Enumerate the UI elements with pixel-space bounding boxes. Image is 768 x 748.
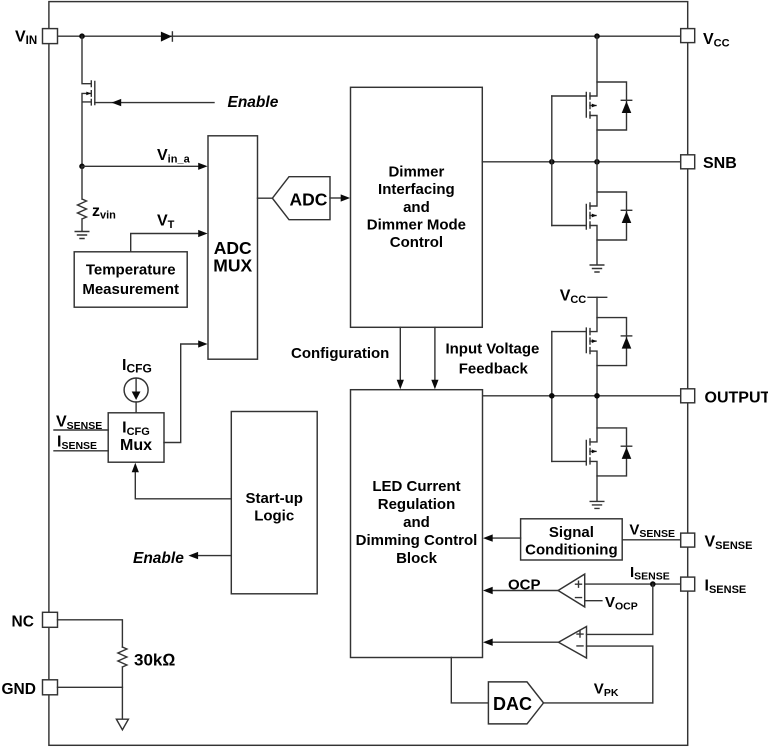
block LED Current Regulation and Dimming Control Block	[351, 390, 483, 658]
wire OCP output to LED block	[491, 590, 558, 592]
block Signal Conditioning	[521, 519, 623, 560]
pin SNB	[681, 155, 695, 169]
svg-text:Feedback: Feedback	[459, 360, 529, 377]
svg-text:Signal: Signal	[549, 524, 594, 541]
wire M4 source to ground	[596, 476, 598, 501]
wire VCC rail down to M1	[596, 36, 598, 82]
wire ISENSE pin to OCP + input	[585, 583, 681, 585]
svg-text:Start-up: Start-up	[245, 490, 303, 507]
gate bus M3/M4	[551, 332, 553, 462]
svg-text:DAC: DAC	[493, 694, 532, 714]
wire Configuration arrow	[399, 327, 401, 380]
pin NC	[43, 612, 58, 627]
wire M1 source to SNB node	[596, 130, 598, 162]
comparator U1 (OCP)	[558, 574, 585, 607]
svg-text:Logic: Logic	[254, 507, 294, 524]
block ADC MUX	[208, 136, 258, 359]
wire Dimmer block to SNB pin	[482, 161, 680, 163]
pin VCC	[681, 29, 695, 43]
wire VPK from DAC	[544, 702, 653, 704]
node junction gate bus / SNB	[549, 159, 555, 165]
ground (below M2)	[590, 265, 604, 272]
svg-text:MUX: MUX	[213, 256, 252, 276]
block Start-up Logic	[231, 412, 317, 594]
wire ADC MUX to ADC	[258, 197, 273, 199]
wire LED block to DAC	[451, 658, 488, 703]
wire enable to Q1 gate	[95, 102, 214, 104]
ground (below zvin)	[75, 232, 89, 239]
wire OUTPUT node down to M4	[596, 396, 598, 428]
node junction at x=82	[79, 33, 85, 39]
wire VCC tick down to M3	[596, 297, 598, 317]
svg-text:Dimming Control: Dimming Control	[356, 532, 478, 549]
wire Vin_a to ADC MUX	[82, 165, 199, 167]
svg-text:Dimmer: Dimmer	[388, 163, 444, 180]
wire ISENSE into mux	[54, 450, 108, 452]
node junction M1 source / SNB	[594, 159, 600, 165]
diode D1 on top rail	[161, 32, 172, 42]
wire VIN to VCC (top rail)	[58, 35, 681, 37]
wire Start-up Logic to mux (select)	[135, 471, 231, 499]
svg-text:Control: Control	[390, 234, 443, 251]
gate bus M1/M2	[551, 96, 553, 226]
wire GND to resistor bottom	[58, 687, 123, 719]
transistor M4 (low-side output FET)	[552, 428, 632, 476]
svg-text:Temperature: Temperature	[86, 261, 176, 278]
wire ISENSE down to U2 + input	[587, 584, 653, 634]
node junction at x=597	[594, 33, 600, 39]
pin ISENSE	[681, 577, 695, 591]
svg-text:VIN: VIN	[15, 29, 37, 48]
transistor M2 (low-side snubber FET)	[552, 192, 632, 240]
DAC pentagon	[488, 682, 543, 724]
wire Signal Conditioning to LED block	[491, 537, 521, 539]
wire NC to resistor	[58, 620, 123, 647]
wire ADC to Dimmer block	[330, 197, 342, 199]
wire U2 output to LED block	[491, 641, 559, 643]
svg-text:and: and	[403, 514, 430, 531]
pin VSENSE	[681, 533, 695, 547]
wire M3 source to OUTPUT node	[596, 366, 598, 396]
wire Enable output	[197, 555, 231, 557]
svg-text:Interfacing: Interfacing	[378, 181, 455, 198]
block ICFG Mux	[108, 413, 164, 462]
comparator U2 (peak)	[559, 627, 587, 659]
wire U2 - input to VPK	[587, 646, 653, 703]
block Temperature Measurement	[74, 252, 187, 307]
node junction ISENSE	[650, 581, 656, 587]
svg-text:Enable: Enable	[133, 550, 184, 567]
svg-text:VSENSE: VSENSE	[705, 534, 753, 553]
ground (below M4)	[590, 501, 604, 508]
svg-text:Configuration: Configuration	[291, 345, 389, 362]
wire M2 source to ground	[596, 240, 598, 265]
svg-text:VCC: VCC	[703, 31, 730, 50]
pin VIN	[43, 29, 58, 44]
svg-text:Block: Block	[396, 550, 438, 567]
wire ICFG to mux	[135, 402, 137, 413]
node junction M3 source / OUTPUT	[594, 393, 600, 399]
current source ICFG	[124, 378, 148, 402]
pin GND	[43, 680, 58, 695]
supply tick VCC	[588, 296, 607, 298]
svg-text:Conditioning: Conditioning	[525, 542, 617, 559]
svg-text:Measurement: Measurement	[82, 281, 179, 298]
svg-text:GND: GND	[2, 681, 36, 698]
node junction gate bus / OUTPUT	[549, 393, 555, 399]
ground (open triangle)	[116, 719, 128, 730]
svg-text:NC: NC	[12, 613, 34, 630]
wire VOCP to OCP - input	[585, 600, 602, 602]
wire VT into ADC MUX	[131, 234, 199, 252]
transistor M3 (high-side output FET)	[552, 318, 632, 366]
svg-text:ADC: ADC	[290, 190, 328, 210]
svg-text:Enable: Enable	[228, 94, 279, 111]
svg-text:LED Current: LED Current	[372, 478, 460, 495]
svg-text:Regulation: Regulation	[378, 496, 456, 513]
transistor M1 (high-side snubber FET)	[552, 82, 632, 130]
svg-text:ISENSE: ISENSE	[705, 578, 747, 597]
wire SNB node down to M2	[596, 162, 598, 192]
svg-text:SNB: SNB	[703, 155, 737, 172]
svg-text:OUTPUT: OUTPUT	[705, 390, 768, 407]
node junction Vin_a	[79, 164, 85, 170]
wire VSENSE into mux	[54, 429, 108, 431]
wire LED block to OUTPUT pin	[483, 395, 681, 397]
resistor 30k	[118, 647, 127, 687]
svg-text:30kΩ: 30kΩ	[134, 651, 175, 670]
wire ICFG mux to ADC MUX	[164, 344, 199, 443]
wire VSENSE pin to Signal Conditioning	[622, 539, 681, 541]
svg-text:Mux: Mux	[120, 437, 152, 454]
pin OUTPUT	[681, 389, 695, 403]
svg-text:Input Voltage: Input Voltage	[445, 341, 539, 358]
svg-text:and: and	[403, 199, 430, 216]
resistor Zvin	[78, 166, 87, 231]
wire Input Voltage Feedback arrow	[434, 327, 436, 380]
ADC converter pentagon	[272, 177, 330, 220]
transistor Q1 (PMOS disconnect)	[82, 36, 95, 166]
block Dimmer Interfacing and Dimmer Mode Control	[351, 87, 483, 327]
svg-text:Dimmer Mode: Dimmer Mode	[367, 217, 466, 234]
